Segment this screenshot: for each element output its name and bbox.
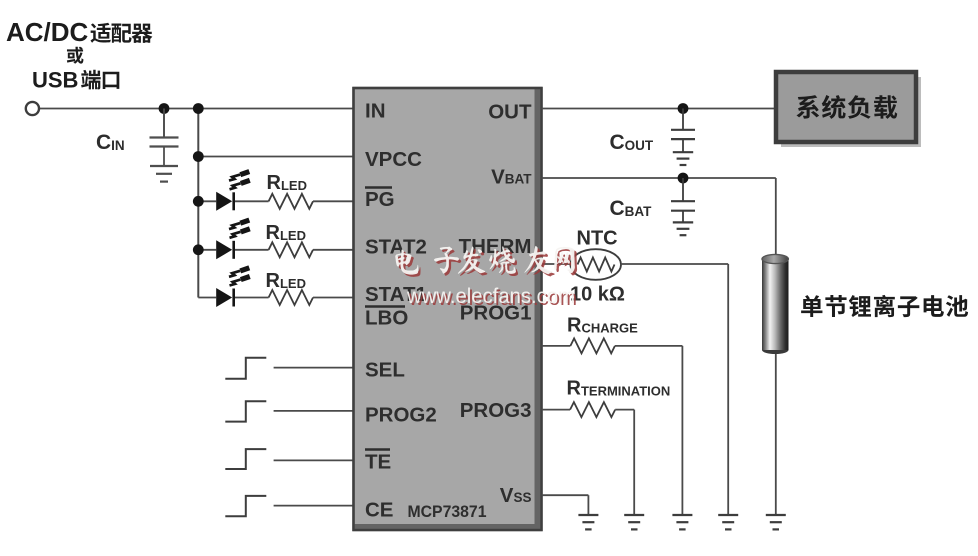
svg-text:10 kΩ: 10 kΩ <box>570 284 625 306</box>
svg-text:SEL: SEL <box>365 359 405 382</box>
svg-text:USB: USB <box>32 68 78 93</box>
svg-text:AC/DC: AC/DC <box>6 17 89 47</box>
svg-text:TE: TE <box>365 451 391 474</box>
svg-text:VPCC: VPCC <box>365 148 422 171</box>
svg-text:NTC: NTC <box>577 228 618 250</box>
svg-text:www.elecfans.com: www.elecfans.com <box>406 284 575 308</box>
svg-text:OUT: OUT <box>488 101 532 124</box>
svg-text:PG: PG <box>365 188 395 211</box>
svg-text:LBO: LBO <box>365 307 408 330</box>
svg-text:PROG3: PROG3 <box>460 399 532 422</box>
svg-text:MCP73871: MCP73871 <box>408 502 487 521</box>
svg-text:PROG2: PROG2 <box>365 404 437 427</box>
svg-text:CE: CE <box>365 499 393 522</box>
svg-text:IN: IN <box>365 100 386 123</box>
